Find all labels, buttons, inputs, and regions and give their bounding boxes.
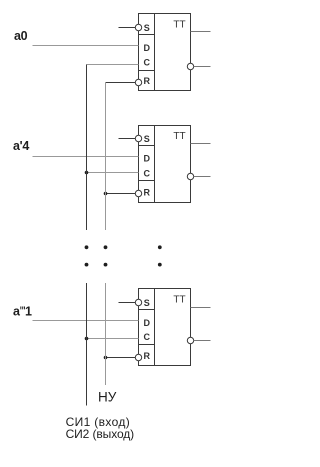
wire CI bus to U3 pin C bbox=[87, 338, 139, 340]
wire a'4 to U2 pin D bbox=[33, 156, 139, 158]
svg-text:a'''1: a'''1 bbox=[13, 305, 32, 319]
ellipsis dot bbox=[104, 245, 108, 249]
svg-text:S: S bbox=[144, 134, 150, 144]
svg-text:D: D bbox=[144, 153, 151, 163]
U3 inverse output Q wire bbox=[194, 340, 211, 342]
svg-text:S: S bbox=[144, 298, 150, 308]
U1 S input inversion bubble bbox=[135, 24, 141, 30]
U1 inverse output Q wire bbox=[194, 66, 211, 68]
junction dot U2 C bbox=[85, 171, 89, 175]
wire CI bus to U1 pin C bbox=[87, 64, 139, 66]
U3 R input inversion bubble bbox=[135, 354, 141, 360]
ellipsis dot bbox=[85, 245, 89, 249]
wire CI bus to U2 pin C bbox=[87, 172, 139, 174]
flip-flop U2 body bbox=[139, 126, 191, 203]
U1 inverse output bubble bbox=[187, 63, 193, 69]
ellipsis dot bbox=[104, 263, 108, 267]
U3 S input stub wire bbox=[119, 302, 136, 304]
wire NU bus to U2 pin R bbox=[106, 193, 136, 195]
svg-text:a0: a0 bbox=[14, 29, 28, 43]
U2 inverse output bubble bbox=[187, 173, 193, 179]
U3 inverse output bubble bbox=[187, 337, 193, 343]
U2 S input stub wire bbox=[119, 138, 136, 140]
junction dot U3 R bbox=[104, 356, 108, 360]
svg-text:R: R bbox=[144, 187, 151, 197]
ellipsis dot bbox=[158, 245, 162, 249]
svg-text:C: C bbox=[144, 168, 151, 178]
svg-text:C: C bbox=[144, 332, 151, 342]
NU reset bus vertical wire (lower segment) bbox=[105, 283, 107, 385]
svg-text:R: R bbox=[144, 351, 151, 361]
junction dot U3 C bbox=[85, 337, 89, 341]
svg-text:TT: TT bbox=[173, 294, 185, 305]
U2 inverse output Q wire bbox=[194, 176, 211, 178]
svg-text:D: D bbox=[144, 43, 151, 53]
U2 R input inversion bubble bbox=[135, 190, 141, 196]
U1 direct output Q wire bbox=[191, 31, 211, 33]
svg-text:R: R bbox=[144, 76, 151, 86]
U2 direct output Q wire bbox=[191, 143, 211, 145]
U1 R input inversion bubble bbox=[135, 79, 141, 85]
wire NU bus to U3 pin R bbox=[106, 357, 136, 359]
ellipsis dot bbox=[85, 263, 89, 267]
flip-flop U3 body bbox=[139, 289, 191, 366]
U1 S input stub wire bbox=[119, 27, 136, 29]
U3 S input inversion bubble bbox=[135, 299, 141, 305]
flip-flop U1 body bbox=[139, 14, 191, 91]
svg-text:a'4: a'4 bbox=[13, 139, 29, 153]
CI clock bus vertical wire (lower segment) bbox=[86, 283, 88, 406]
wire a0 to U1 pin D bbox=[33, 45, 139, 47]
svg-text:TT: TT bbox=[173, 19, 185, 30]
wire NU bus to U1 pin R bbox=[106, 82, 136, 84]
svg-text:S: S bbox=[144, 23, 150, 33]
U3 direct output Q wire bbox=[191, 307, 211, 309]
ellipsis dot bbox=[158, 263, 162, 267]
CI clock bus vertical wire (upper segment) bbox=[86, 65, 88, 231]
svg-text:TT: TT bbox=[173, 131, 185, 142]
svg-text:D: D bbox=[144, 318, 151, 328]
svg-text:СИ2 (выход): СИ2 (выход) bbox=[66, 427, 135, 441]
svg-text:НУ: НУ bbox=[98, 390, 117, 405]
wire a'''1 to U3 pin D bbox=[33, 320, 139, 322]
NU reset bus vertical wire (upper segment) bbox=[105, 83, 107, 231]
svg-text:C: C bbox=[144, 58, 151, 68]
junction dot U2 R bbox=[104, 192, 108, 196]
U2 S input inversion bubble bbox=[135, 135, 141, 141]
